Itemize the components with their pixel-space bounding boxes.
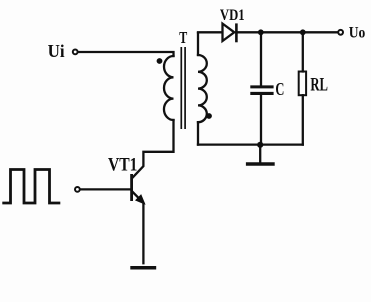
svg-text:VD1: VD1: [220, 7, 245, 24]
svg-text:C: C: [275, 79, 284, 99]
svg-text:Uo: Uo: [349, 25, 366, 42]
svg-text:VT1: VT1: [108, 155, 138, 176]
svg-text:T: T: [179, 28, 187, 47]
svg-text:RL: RL: [310, 76, 328, 96]
svg-text:Ui: Ui: [48, 41, 65, 61]
